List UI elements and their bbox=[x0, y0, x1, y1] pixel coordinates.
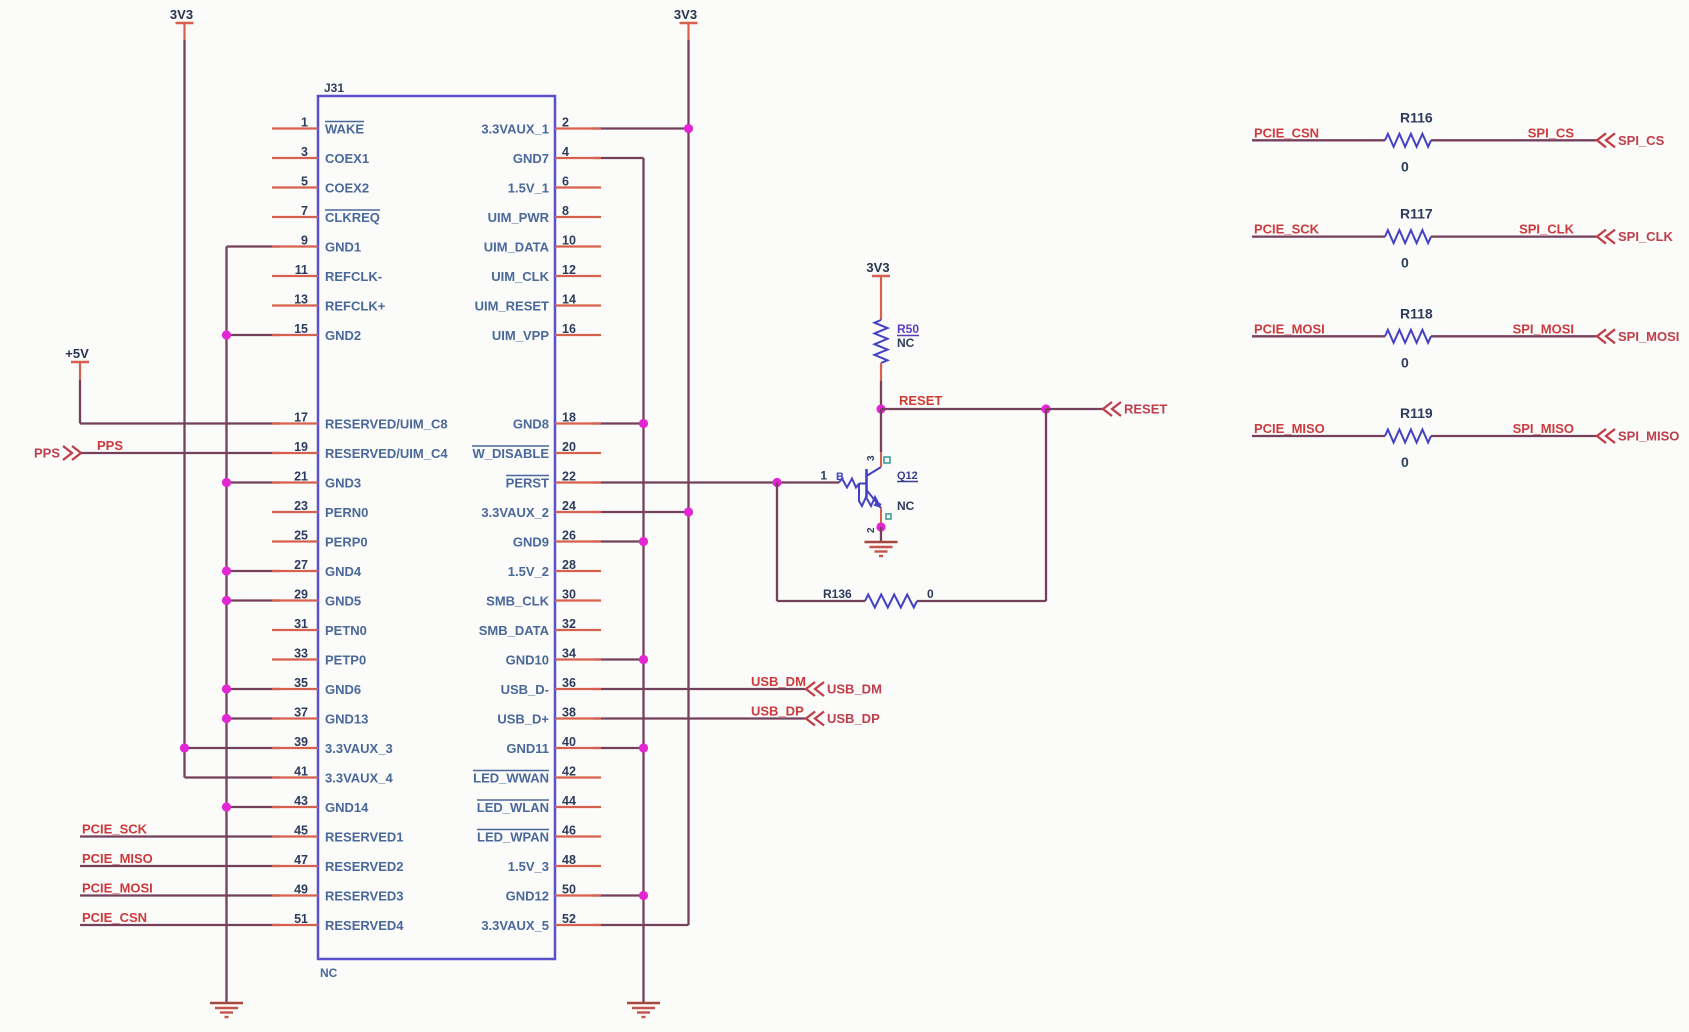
svg-text:1.5V_2: 1.5V_2 bbox=[508, 564, 549, 579]
svg-text:PCIE_MOSI: PCIE_MOSI bbox=[1254, 321, 1325, 336]
wire GND branch row 23 bbox=[227, 806, 281, 808]
resistor R117 bbox=[1385, 230, 1431, 243]
wire to pin 39 bbox=[185, 747, 281, 749]
wire R50 to RESET node bbox=[880, 363, 882, 381]
pin 22 PERST bbox=[555, 481, 601, 483]
svg-text:3V3: 3V3 bbox=[170, 7, 193, 22]
pin 43 GND14 bbox=[272, 806, 318, 808]
node GND junction bbox=[639, 537, 648, 546]
svg-text:RESET: RESET bbox=[899, 393, 942, 408]
pin 20 W_DISABLE bbox=[555, 452, 601, 454]
wire pin 2 to 3V3 rail bbox=[593, 127, 689, 129]
svg-text:UIM_CLK: UIM_CLK bbox=[491, 269, 549, 284]
svg-text:31: 31 bbox=[294, 617, 308, 631]
port USB_DP bbox=[806, 712, 824, 726]
svg-text:B: B bbox=[836, 471, 844, 483]
svg-text:20: 20 bbox=[562, 440, 576, 454]
wire GND branch row 14 bbox=[593, 540, 644, 542]
svg-text:SMB_CLK: SMB_CLK bbox=[486, 594, 549, 609]
pin 46 LED_WPAN bbox=[555, 835, 601, 837]
node 3.3VAUX_3 junction bbox=[180, 743, 189, 752]
svg-text:2: 2 bbox=[866, 527, 877, 533]
wire RESET to port bbox=[1046, 408, 1103, 410]
wire GND right rail bbox=[593, 157, 644, 159]
svg-text:23: 23 bbox=[294, 499, 308, 513]
svg-text:RESERVED/UIM_C8: RESERVED/UIM_C8 bbox=[325, 417, 448, 432]
svg-text:30: 30 bbox=[562, 588, 576, 602]
svg-text:25: 25 bbox=[294, 529, 308, 543]
svg-text:5: 5 bbox=[301, 175, 308, 189]
wire +5V to pin 17 bbox=[79, 362, 81, 380]
wire PCIE_SCK to connector bbox=[80, 835, 280, 837]
svg-text:52: 52 bbox=[562, 912, 576, 926]
node RESET/port junction bbox=[1041, 404, 1050, 413]
pin 12 UIM_CLK bbox=[555, 275, 601, 277]
pin 27 GND4 bbox=[272, 570, 318, 572]
wire PCIE_SCK bbox=[1252, 235, 1385, 237]
svg-text:SPI_MISO: SPI_MISO bbox=[1513, 421, 1574, 436]
pin 47 RESERVED2 bbox=[272, 865, 318, 867]
svg-text:3.3VAUX_4: 3.3VAUX_4 bbox=[325, 771, 393, 786]
svg-text:CLKREQ: CLKREQ bbox=[325, 210, 380, 225]
svg-text:0: 0 bbox=[1401, 158, 1409, 174]
svg-text:0: 0 bbox=[1401, 354, 1409, 370]
svg-text:USB_DP: USB_DP bbox=[827, 711, 880, 726]
svg-text:UIM_VPP: UIM_VPP bbox=[492, 328, 549, 343]
svg-text:42: 42 bbox=[562, 765, 576, 779]
svg-text:SPI_CLK: SPI_CLK bbox=[1618, 229, 1674, 244]
svg-text:W_DISABLE: W_DISABLE bbox=[472, 446, 549, 461]
pin 15 GND2 bbox=[272, 334, 318, 336]
svg-text:37: 37 bbox=[294, 706, 308, 720]
wire collector bbox=[880, 409, 882, 452]
svg-text:24: 24 bbox=[562, 499, 576, 513]
svg-text:PCIE_SCK: PCIE_SCK bbox=[1254, 222, 1320, 237]
svg-text:R50: R50 bbox=[897, 322, 919, 336]
svg-text:PPS: PPS bbox=[97, 438, 123, 453]
wire GND branch row 20 bbox=[227, 717, 281, 719]
port SPI_CS bbox=[1597, 133, 1615, 147]
pin 41 3.3VAUX_4 bbox=[272, 776, 318, 778]
svg-text:3V3: 3V3 bbox=[866, 260, 889, 275]
svg-text:PETN0: PETN0 bbox=[325, 623, 367, 638]
pin 10 UIM_DATA bbox=[555, 245, 601, 247]
wire RESET horizontal bbox=[881, 408, 1046, 410]
wire USB_D+ bbox=[593, 717, 806, 719]
wire emitter to ground bbox=[880, 508, 882, 527]
pin 37 GND13 bbox=[272, 717, 318, 719]
wire GND branch row 16 bbox=[227, 599, 281, 601]
node GND junction bbox=[222, 478, 231, 487]
svg-text:32: 32 bbox=[562, 617, 576, 631]
pin 44 LED_WLAN bbox=[555, 806, 601, 808]
svg-text:40: 40 bbox=[562, 735, 576, 749]
wire R136 to base node bbox=[777, 600, 865, 602]
node emitter junction bbox=[876, 522, 885, 531]
svg-text:RESERVED4: RESERVED4 bbox=[325, 918, 404, 933]
pin 40 GND11 bbox=[555, 747, 601, 749]
pin 24 3.3VAUX_2 bbox=[555, 511, 601, 513]
node GND junction bbox=[222, 330, 231, 339]
svg-text:PCIE_SCK: PCIE_SCK bbox=[82, 822, 148, 837]
resistor R136 bbox=[865, 595, 917, 608]
node GND junction bbox=[222, 714, 231, 723]
svg-text:1.5V_3: 1.5V_3 bbox=[508, 859, 549, 874]
svg-text:4: 4 bbox=[562, 145, 569, 159]
node RESET junction bbox=[876, 404, 885, 413]
svg-text:3: 3 bbox=[301, 145, 308, 159]
svg-text:1: 1 bbox=[301, 116, 308, 130]
pin 16 UIM_VPP bbox=[555, 334, 601, 336]
connector J31 body bbox=[318, 96, 555, 959]
svg-text:1.5V_1: 1.5V_1 bbox=[508, 181, 549, 196]
port SPI_MOSI bbox=[1597, 329, 1615, 343]
svg-text:PCIE_MISO: PCIE_MISO bbox=[82, 851, 153, 866]
wire GND branch row 15 bbox=[227, 570, 281, 572]
svg-text:PCIE_CSN: PCIE_CSN bbox=[1254, 125, 1319, 140]
ground (emitter) bbox=[865, 542, 898, 556]
port USB_DM bbox=[806, 682, 824, 696]
wire 3V3 to R50 bbox=[880, 276, 882, 320]
pin 21 GND3 bbox=[272, 481, 318, 483]
svg-text:GND14: GND14 bbox=[325, 800, 369, 815]
svg-text:2: 2 bbox=[562, 116, 569, 130]
svg-text:RESERVED2: RESERVED2 bbox=[325, 859, 404, 874]
svg-text:3.3VAUX_1: 3.3VAUX_1 bbox=[481, 122, 549, 137]
pin 33 PETP0 bbox=[272, 658, 318, 660]
pin 25 PERP0 bbox=[272, 540, 318, 542]
wire GND branch row 26 bbox=[593, 894, 644, 896]
wire pin 24 to 3V3 rail bbox=[593, 511, 689, 513]
wire SPI_CLK bbox=[1431, 235, 1597, 237]
node GND junction bbox=[639, 419, 648, 428]
svg-text:R136: R136 bbox=[823, 587, 852, 601]
wire PPS to pin 19 bbox=[81, 452, 280, 454]
pin 8 UIM_PWR bbox=[555, 216, 601, 218]
svg-text:Q12: Q12 bbox=[897, 470, 918, 482]
svg-text:USB_DP: USB_DP bbox=[751, 704, 804, 719]
pin 38 USB_D+ bbox=[555, 717, 601, 719]
svg-text:UIM_PWR: UIM_PWR bbox=[488, 210, 550, 225]
svg-text:26: 26 bbox=[562, 529, 576, 543]
resistor R50 bbox=[875, 320, 888, 363]
port PPS bbox=[63, 446, 81, 460]
wire PCIE_MOSI to connector bbox=[80, 894, 280, 896]
svg-text:36: 36 bbox=[562, 676, 576, 690]
svg-text:GND6: GND6 bbox=[325, 682, 361, 697]
pin 28 1.5V_2 bbox=[555, 570, 601, 572]
pin 49 RESERVED3 bbox=[272, 894, 318, 896]
svg-text:SPI_CLK: SPI_CLK bbox=[1519, 222, 1575, 237]
pin 7 CLKREQ bbox=[272, 216, 318, 218]
pin 19 RESERVED/UIM_C4 bbox=[272, 452, 318, 454]
svg-text:LED_WWAN: LED_WWAN bbox=[473, 771, 549, 786]
svg-text:SPI_MOSI: SPI_MOSI bbox=[1513, 321, 1574, 336]
svg-text:R119: R119 bbox=[1400, 405, 1433, 421]
wire PCIE_CSN bbox=[1252, 139, 1385, 141]
svg-text:PCIE_MOSI: PCIE_MOSI bbox=[82, 881, 153, 896]
svg-text:RESERVED1: RESERVED1 bbox=[325, 830, 404, 845]
pin 35 GND6 bbox=[272, 688, 318, 690]
wire PCIE_MOSI bbox=[1252, 335, 1385, 337]
svg-text:35: 35 bbox=[294, 676, 308, 690]
node GND junction bbox=[222, 596, 231, 605]
resistor R118 bbox=[1385, 330, 1431, 343]
node 3.3VAUX_2 junction bbox=[684, 507, 693, 516]
svg-text:0: 0 bbox=[1401, 454, 1409, 470]
pin 48 1.5V_3 bbox=[555, 865, 601, 867]
wire 3V3 right rail (3.3VAUX bus) bbox=[687, 23, 689, 40]
svg-text:GND10: GND10 bbox=[506, 653, 549, 668]
svg-text:SPI_CS: SPI_CS bbox=[1528, 125, 1575, 140]
svg-text:J31: J31 bbox=[324, 81, 344, 95]
pin 29 GND5 bbox=[272, 599, 318, 601]
wire GND branch row 19 bbox=[227, 688, 281, 690]
svg-text:12: 12 bbox=[562, 263, 576, 277]
svg-text:RESERVED3: RESERVED3 bbox=[325, 889, 404, 904]
svg-text:28: 28 bbox=[562, 558, 576, 572]
wire PCIE_MISO bbox=[1252, 435, 1385, 437]
svg-text:3.3VAUX_2: 3.3VAUX_2 bbox=[481, 505, 549, 520]
svg-text:WAKE: WAKE bbox=[325, 122, 364, 137]
pin 42 LED_WWAN bbox=[555, 776, 601, 778]
svg-text:REFCLK+: REFCLK+ bbox=[325, 299, 386, 314]
svg-text:LED_WLAN: LED_WLAN bbox=[477, 800, 549, 815]
svg-text:+5V: +5V bbox=[65, 346, 89, 361]
svg-text:SMB_DATA: SMB_DATA bbox=[479, 623, 550, 638]
node GND junction bbox=[639, 891, 648, 900]
svg-text:PCIE_MISO: PCIE_MISO bbox=[1254, 421, 1325, 436]
svg-text:51: 51 bbox=[294, 912, 308, 926]
wire USB_D- bbox=[593, 688, 806, 690]
svg-text:7: 7 bbox=[301, 204, 308, 218]
svg-text:GND12: GND12 bbox=[506, 889, 549, 904]
svg-text:14: 14 bbox=[562, 293, 576, 307]
wire GND branch row 18 bbox=[593, 658, 644, 660]
pin 51 RESERVED4 bbox=[272, 924, 318, 926]
svg-text:REFCLK-: REFCLK- bbox=[325, 269, 382, 284]
svg-text:UIM_RESET: UIM_RESET bbox=[475, 299, 549, 314]
svg-text:44: 44 bbox=[562, 794, 576, 808]
pin 52 3.3VAUX_5 bbox=[555, 924, 601, 926]
node GND junction bbox=[222, 566, 231, 575]
svg-text:USB_D-: USB_D- bbox=[501, 682, 549, 697]
svg-text:22: 22 bbox=[562, 470, 576, 484]
wire GND branch row 21 bbox=[593, 747, 644, 749]
svg-text:45: 45 bbox=[294, 824, 308, 838]
svg-text:27: 27 bbox=[294, 558, 308, 572]
svg-text:PERP0: PERP0 bbox=[325, 535, 368, 550]
wire GND branch row 10 bbox=[593, 422, 644, 424]
svg-text:SPI_MISO: SPI_MISO bbox=[1618, 429, 1679, 444]
svg-text:GND8: GND8 bbox=[513, 417, 549, 432]
svg-text:SPI_MOSI: SPI_MOSI bbox=[1618, 329, 1679, 344]
svg-text:43: 43 bbox=[294, 794, 308, 808]
wire GND branch row 12 bbox=[227, 481, 281, 483]
svg-text:0: 0 bbox=[927, 587, 934, 601]
svg-text:11: 11 bbox=[295, 263, 308, 277]
svg-text:50: 50 bbox=[562, 883, 576, 897]
pin 39 3.3VAUX_3 bbox=[272, 747, 318, 749]
svg-text:17: 17 bbox=[294, 411, 308, 425]
pin 1 WAKE bbox=[272, 127, 318, 129]
pin 9 GND1 bbox=[272, 245, 318, 247]
pin 50 GND12 bbox=[555, 894, 601, 896]
wire 3V3 left rail bbox=[183, 23, 185, 40]
svg-text:3: 3 bbox=[866, 455, 877, 461]
svg-text:R117: R117 bbox=[1400, 206, 1433, 222]
transistor Q2 (digital) bbox=[839, 467, 881, 508]
svg-text:38: 38 bbox=[562, 706, 576, 720]
svg-text:39: 39 bbox=[294, 735, 308, 749]
pin 30 SMB_CLK bbox=[555, 599, 601, 601]
svg-text:PPS: PPS bbox=[34, 446, 60, 461]
resistor R119 bbox=[1385, 430, 1431, 443]
svg-text:COEX1: COEX1 bbox=[325, 151, 369, 166]
pin 6 1.5V_1 bbox=[555, 186, 601, 188]
svg-text:NC: NC bbox=[897, 499, 915, 513]
svg-text:10: 10 bbox=[562, 234, 576, 248]
svg-text:GND4: GND4 bbox=[325, 564, 362, 579]
svg-text:USB_DM: USB_DM bbox=[751, 674, 806, 689]
pin 2 3.3VAUX_1 bbox=[555, 127, 601, 129]
wire SPI_CS bbox=[1431, 139, 1597, 141]
node GND junction bbox=[222, 802, 231, 811]
svg-text:41: 41 bbox=[294, 765, 308, 779]
pin 45 RESERVED1 bbox=[272, 835, 318, 837]
wire RESET down to R136 bbox=[1045, 409, 1047, 601]
wire SPI_MISO bbox=[1431, 435, 1597, 437]
svg-text:NC: NC bbox=[897, 336, 915, 350]
port SPI_CLK bbox=[1597, 230, 1615, 244]
ground (right rail) bbox=[627, 1003, 660, 1017]
svg-text:16: 16 bbox=[562, 322, 576, 336]
resistor R116 bbox=[1385, 134, 1431, 147]
svg-text:9: 9 bbox=[301, 234, 308, 248]
svg-text:SPI_CS: SPI_CS bbox=[1618, 133, 1665, 148]
svg-text:GND11: GND11 bbox=[506, 741, 549, 756]
pin 18 GND8 bbox=[555, 422, 601, 424]
svg-text:PERST: PERST bbox=[506, 476, 549, 491]
node PERST/R136 junction bbox=[772, 478, 781, 487]
wire PERST pin 22 to transistor base bbox=[593, 481, 839, 483]
svg-text:GND5: GND5 bbox=[325, 594, 361, 609]
svg-text:USB_DM: USB_DM bbox=[827, 682, 882, 697]
pin 14 UIM_RESET bbox=[555, 304, 601, 306]
svg-text:USB_D+: USB_D+ bbox=[497, 712, 549, 727]
svg-text:47: 47 bbox=[294, 853, 308, 867]
svg-text:PERN0: PERN0 bbox=[325, 505, 368, 520]
svg-text:PETP0: PETP0 bbox=[325, 653, 366, 668]
wire SPI_MOSI bbox=[1431, 335, 1597, 337]
svg-text:R116: R116 bbox=[1400, 109, 1433, 125]
svg-text:NC: NC bbox=[320, 966, 338, 980]
svg-text:UIM_DATA: UIM_DATA bbox=[484, 240, 550, 255]
wire GND branch row 7 bbox=[227, 334, 281, 336]
wire PCIE_CSN to connector bbox=[80, 924, 280, 926]
pin 36 USB_D- bbox=[555, 688, 601, 690]
svg-text:3.3VAUX_3: 3.3VAUX_3 bbox=[325, 741, 393, 756]
node 3.3VAUX_1 junction bbox=[684, 124, 693, 133]
svg-text:49: 49 bbox=[294, 883, 308, 897]
node GND junction bbox=[639, 655, 648, 664]
svg-text:15: 15 bbox=[294, 322, 308, 336]
svg-text:R118: R118 bbox=[1400, 305, 1433, 321]
svg-text:13: 13 bbox=[294, 293, 308, 307]
wire GND left rail bbox=[225, 247, 227, 1004]
svg-text:GND3: GND3 bbox=[325, 476, 361, 491]
svg-text:1: 1 bbox=[820, 469, 827, 483]
svg-text:6: 6 bbox=[562, 175, 569, 189]
pin 5 COEX2 bbox=[272, 186, 318, 188]
svg-text:0: 0 bbox=[1401, 255, 1409, 271]
svg-text:19: 19 bbox=[294, 440, 308, 454]
svg-text:GND7: GND7 bbox=[513, 151, 549, 166]
svg-text:RESET: RESET bbox=[1124, 402, 1167, 417]
svg-text:RESERVED/UIM_C4: RESERVED/UIM_C4 bbox=[325, 446, 448, 461]
port SPI_MISO bbox=[1597, 429, 1615, 443]
svg-text:48: 48 bbox=[562, 853, 576, 867]
pin 11 REFCLK- bbox=[272, 275, 318, 277]
port RESET bbox=[1103, 402, 1121, 416]
svg-text:GND9: GND9 bbox=[513, 535, 549, 550]
svg-text:46: 46 bbox=[562, 824, 576, 838]
pin 3 COEX1 bbox=[272, 157, 318, 159]
svg-text:GND2: GND2 bbox=[325, 328, 361, 343]
wire PCIE_MISO to connector bbox=[80, 865, 280, 867]
svg-text:33: 33 bbox=[294, 647, 308, 661]
svg-text:COEX2: COEX2 bbox=[325, 181, 369, 196]
svg-text:18: 18 bbox=[562, 411, 576, 425]
pin 4 GND7 bbox=[555, 157, 601, 159]
svg-text:21: 21 bbox=[294, 470, 308, 484]
svg-text:LED_WPAN: LED_WPAN bbox=[477, 830, 549, 845]
pin 34 GND10 bbox=[555, 658, 601, 660]
pin 32 SMB_DATA bbox=[555, 629, 601, 631]
svg-text:8: 8 bbox=[562, 204, 569, 218]
pin 13 REFCLK+ bbox=[272, 304, 318, 306]
node GND junction bbox=[222, 684, 231, 693]
svg-text:3.3VAUX_5: 3.3VAUX_5 bbox=[481, 918, 549, 933]
pin 23 PERN0 bbox=[272, 511, 318, 513]
pin 31 PETN0 bbox=[272, 629, 318, 631]
svg-text:29: 29 bbox=[294, 588, 308, 602]
pin 17 RESERVED/UIM_C8 bbox=[272, 422, 318, 424]
svg-text:PCIE_CSN: PCIE_CSN bbox=[82, 910, 147, 925]
svg-text:34: 34 bbox=[562, 647, 576, 661]
svg-text:GND13: GND13 bbox=[325, 712, 368, 727]
ground (left rail) bbox=[210, 1003, 243, 1017]
pin 26 GND9 bbox=[555, 540, 601, 542]
svg-text:GND1: GND1 bbox=[325, 240, 361, 255]
node GND junction bbox=[639, 743, 648, 752]
svg-text:3V3: 3V3 bbox=[674, 7, 697, 22]
